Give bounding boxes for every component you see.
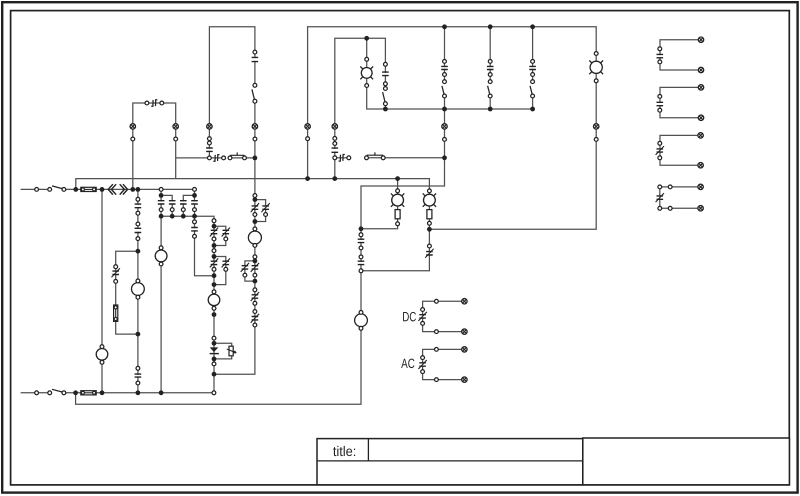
junction xyxy=(73,187,78,192)
junction xyxy=(253,197,258,202)
wire xyxy=(660,135,701,165)
connector pin xyxy=(428,221,432,225)
connector pin xyxy=(114,265,118,269)
connector pin xyxy=(136,279,140,283)
junction xyxy=(212,357,217,362)
contact K23 xyxy=(425,249,433,258)
contact K15a xyxy=(251,263,259,272)
wire xyxy=(361,179,398,229)
motor M2 xyxy=(355,314,368,327)
connector pin xyxy=(384,62,388,66)
terminal xyxy=(332,124,337,129)
wire xyxy=(255,200,266,222)
wire xyxy=(183,195,194,216)
junction xyxy=(192,193,197,198)
contact K4 xyxy=(382,72,389,76)
connector pin xyxy=(253,323,257,327)
terminal xyxy=(207,124,212,129)
junction xyxy=(332,176,337,181)
contact K28 xyxy=(418,312,426,321)
junction xyxy=(253,259,258,264)
terminal xyxy=(698,115,703,120)
contact K10 xyxy=(134,204,141,208)
connector pin xyxy=(594,52,598,56)
terminal xyxy=(462,347,467,352)
connector pin xyxy=(253,301,257,305)
junction xyxy=(136,187,141,192)
junction xyxy=(253,219,258,224)
connector pin xyxy=(359,255,363,259)
terminal xyxy=(173,124,178,129)
junction xyxy=(181,214,186,219)
switch blade S3 xyxy=(252,89,255,100)
contact K8a xyxy=(157,201,164,204)
junction xyxy=(305,176,310,181)
terminal xyxy=(130,124,135,129)
connector pin xyxy=(658,95,662,99)
wire xyxy=(367,157,445,159)
wire xyxy=(133,103,176,189)
wire xyxy=(214,226,226,245)
connector pin xyxy=(131,137,135,141)
junction xyxy=(159,390,164,395)
junction xyxy=(212,282,217,287)
connector pin xyxy=(212,362,216,366)
connector pin xyxy=(253,99,257,103)
connector pin xyxy=(170,208,174,212)
junction xyxy=(530,107,535,112)
junction xyxy=(442,155,447,160)
contact K18b xyxy=(222,228,230,237)
wire xyxy=(660,40,701,70)
wire xyxy=(214,101,255,374)
connector pin xyxy=(428,244,432,248)
connector pin xyxy=(181,208,185,212)
junction xyxy=(136,249,141,254)
connector pin xyxy=(193,220,197,224)
wire xyxy=(161,195,172,216)
contact K17 xyxy=(251,314,259,323)
wire xyxy=(335,38,386,178)
connector pin xyxy=(488,80,492,84)
connector pin xyxy=(253,194,257,198)
junction xyxy=(212,254,217,259)
connector pin xyxy=(359,233,363,237)
terminal xyxy=(462,299,467,304)
junction xyxy=(212,372,217,377)
wire xyxy=(444,27,446,82)
wire xyxy=(116,251,138,334)
terminal xyxy=(462,377,467,382)
wire xyxy=(21,188,50,190)
connector pin xyxy=(531,94,535,98)
junction xyxy=(100,390,105,395)
terminal xyxy=(252,124,257,129)
junction xyxy=(130,187,135,192)
title block right box xyxy=(583,438,790,485)
switch blade S6 xyxy=(488,86,490,95)
wire xyxy=(21,392,50,394)
lamp L5 xyxy=(208,294,220,306)
connector pin xyxy=(212,336,216,340)
junction xyxy=(212,273,217,278)
meter M1 xyxy=(248,231,261,244)
junction xyxy=(170,214,175,219)
connector pin xyxy=(531,73,535,77)
contact K16 xyxy=(251,292,259,301)
contact K26 xyxy=(656,146,664,155)
wire xyxy=(176,157,224,159)
contact K14b xyxy=(261,203,269,212)
connector pin xyxy=(488,94,492,98)
connector pin xyxy=(658,108,662,112)
contact K22 xyxy=(357,261,364,264)
wire xyxy=(214,343,232,359)
contact K14a xyxy=(251,203,259,212)
wire xyxy=(423,349,465,379)
connector pin xyxy=(253,137,257,141)
diode D1 xyxy=(210,347,219,353)
connector pin xyxy=(658,206,662,210)
connector pin xyxy=(359,246,363,250)
contact K19b xyxy=(222,258,230,267)
title block left box xyxy=(317,439,583,485)
connector pin xyxy=(658,156,662,160)
connector pin xyxy=(243,156,247,160)
junction xyxy=(253,156,258,161)
connector pin xyxy=(435,348,439,352)
switch blade S5 xyxy=(442,86,444,95)
terminal xyxy=(462,329,467,334)
junction xyxy=(100,187,105,192)
switch blade S2 xyxy=(52,389,64,392)
label DC xyxy=(403,312,409,321)
terminal xyxy=(442,124,447,129)
connector pin xyxy=(396,222,400,226)
lamp L1 xyxy=(391,193,404,206)
junction xyxy=(530,24,535,29)
wire xyxy=(308,27,597,230)
pushbutton PB1 xyxy=(230,153,245,156)
connector pin xyxy=(594,138,598,142)
connector pin xyxy=(658,60,662,64)
junction xyxy=(192,214,197,219)
connector chevron left xyxy=(108,184,116,194)
fuse F2 xyxy=(81,391,96,395)
junction xyxy=(212,224,217,229)
contact K27 xyxy=(656,193,664,202)
connector pin xyxy=(365,84,369,88)
junction xyxy=(212,243,217,248)
connector pin xyxy=(306,137,310,141)
connector pin xyxy=(253,288,257,292)
terminal xyxy=(305,124,310,129)
lamp L3 xyxy=(360,67,373,80)
connector pin xyxy=(208,137,212,141)
connector pin xyxy=(212,249,216,253)
contact K29 xyxy=(418,360,426,369)
resistor R1 xyxy=(395,210,400,219)
terminal xyxy=(698,37,703,42)
connector pin xyxy=(443,60,447,64)
wire xyxy=(76,179,430,271)
connector pin xyxy=(443,73,447,77)
connector pin xyxy=(136,211,140,215)
connector pin xyxy=(359,326,363,330)
junction xyxy=(212,312,217,317)
title block cell divider xyxy=(367,439,369,461)
junction xyxy=(383,107,388,112)
connector pin xyxy=(212,219,216,223)
connector pin xyxy=(253,227,257,231)
wire xyxy=(161,216,214,393)
connector pin xyxy=(174,137,178,141)
inline connector J1 xyxy=(151,100,157,107)
connector pin xyxy=(365,57,369,61)
connector pin xyxy=(159,262,163,266)
wire xyxy=(660,87,701,117)
contact K18a xyxy=(210,228,218,237)
connector pin xyxy=(421,308,425,312)
connector pin xyxy=(668,185,672,189)
connector pin xyxy=(443,138,447,142)
connector pin xyxy=(428,189,432,193)
wire xyxy=(214,257,226,285)
wire xyxy=(532,27,534,82)
connector pin xyxy=(136,295,140,299)
junction xyxy=(159,193,164,198)
connector pin xyxy=(208,141,212,145)
contact K3 xyxy=(331,148,338,152)
wire xyxy=(76,96,445,404)
wire xyxy=(489,96,491,109)
connector pin xyxy=(443,80,447,84)
connector pin xyxy=(253,83,257,87)
fuse F3 xyxy=(114,305,118,321)
varistor RV1 xyxy=(227,346,236,356)
connector pin xyxy=(333,137,337,141)
connector pin xyxy=(35,188,39,192)
contact K20 xyxy=(112,268,120,277)
connector pin xyxy=(421,370,425,374)
connector pin xyxy=(333,142,337,146)
connector pin xyxy=(359,269,363,273)
connector pin xyxy=(253,213,257,217)
fuse F1 xyxy=(81,187,96,191)
connector pin xyxy=(212,290,216,294)
connector pin xyxy=(384,102,388,106)
junction xyxy=(427,227,432,232)
connector pin xyxy=(193,188,197,192)
wire xyxy=(101,189,103,392)
contact K12 xyxy=(134,374,141,377)
pushbutton PB2 xyxy=(367,152,384,155)
connector pin xyxy=(62,391,66,395)
connector pin xyxy=(48,391,52,395)
contact K24 xyxy=(656,54,663,57)
connector pin xyxy=(35,391,39,395)
wire xyxy=(230,157,255,159)
connector pin xyxy=(159,246,163,250)
connector pin xyxy=(228,156,232,160)
connector pin xyxy=(594,79,598,83)
connector pin xyxy=(435,378,439,382)
wire xyxy=(64,392,214,394)
switch blade S1 xyxy=(52,186,64,189)
connector pin xyxy=(253,273,257,277)
contact K21 xyxy=(357,239,364,242)
contact K8b xyxy=(169,201,176,204)
terminal xyxy=(698,163,703,168)
connector pin xyxy=(222,156,226,160)
connector pin xyxy=(443,94,447,98)
wire xyxy=(64,188,195,190)
connector pin xyxy=(100,360,104,364)
motor M3 xyxy=(155,250,167,262)
junction xyxy=(488,107,493,112)
connector pin xyxy=(658,141,662,145)
connector pin xyxy=(160,101,164,105)
connector pin xyxy=(193,234,197,238)
connector pin xyxy=(208,156,212,160)
connector pin xyxy=(384,87,388,91)
junction xyxy=(212,341,217,346)
contact K5 xyxy=(441,66,448,69)
wire xyxy=(489,27,491,82)
connector pin xyxy=(381,156,385,160)
title label xyxy=(333,447,336,456)
connector pin xyxy=(243,273,247,277)
terminal xyxy=(698,206,703,211)
switch blade S7 xyxy=(530,86,532,95)
contact K15b xyxy=(241,263,249,272)
wire xyxy=(384,104,386,109)
terminal xyxy=(698,85,703,90)
connector pin xyxy=(253,50,257,54)
connector pin xyxy=(488,73,492,77)
wire xyxy=(660,187,701,208)
junction xyxy=(136,390,141,395)
connector pin xyxy=(48,188,52,192)
junction xyxy=(488,24,493,29)
connector pin xyxy=(488,60,492,64)
connector pin xyxy=(253,310,257,314)
inline connector J2 xyxy=(213,155,219,162)
connector pin xyxy=(435,299,439,303)
connector pin xyxy=(531,60,535,64)
junction xyxy=(364,36,369,41)
connector pin xyxy=(193,208,197,212)
connector pin xyxy=(159,188,163,192)
wire xyxy=(245,261,255,281)
junction xyxy=(442,24,447,29)
connector pin xyxy=(114,280,118,284)
contact K2 xyxy=(206,148,213,151)
lamp L4 xyxy=(589,60,603,74)
junction xyxy=(395,176,400,181)
switch blade S4 xyxy=(383,92,386,103)
connector chevron right xyxy=(120,184,128,194)
connector pin xyxy=(136,366,140,370)
connector pin xyxy=(658,185,662,189)
connector pin xyxy=(668,206,672,210)
connector pin xyxy=(136,222,140,226)
junction xyxy=(159,214,164,219)
connector pin xyxy=(347,156,351,160)
connector pin xyxy=(136,197,140,201)
wire xyxy=(209,27,255,158)
terminal xyxy=(594,124,599,129)
connector pin xyxy=(224,267,228,271)
connector pin xyxy=(159,208,163,212)
contact K6 xyxy=(487,66,494,69)
wire xyxy=(137,189,139,392)
connector pin xyxy=(212,267,216,271)
resistor R2 xyxy=(427,210,432,219)
contact K13 xyxy=(191,228,198,231)
terminal xyxy=(698,67,703,72)
connector pin xyxy=(384,82,388,86)
contact K19a xyxy=(210,258,218,267)
title block row divider xyxy=(317,460,583,462)
connector pin xyxy=(212,391,216,395)
wire xyxy=(367,38,533,109)
wire xyxy=(423,301,465,331)
motor M4 xyxy=(132,283,145,296)
wire xyxy=(160,189,162,392)
connector pin xyxy=(100,345,104,349)
connector pin xyxy=(136,237,140,241)
contact K7 xyxy=(529,66,536,69)
connector pin xyxy=(253,255,257,259)
contact K11 xyxy=(134,228,141,232)
junction xyxy=(442,107,447,112)
connector pin xyxy=(62,188,66,192)
label AC xyxy=(401,359,407,368)
connector pin xyxy=(365,156,369,160)
terminal xyxy=(698,133,703,138)
wire xyxy=(195,189,215,275)
motor M5 xyxy=(96,349,108,361)
connector pin xyxy=(396,189,400,193)
connector pin xyxy=(531,80,535,84)
terminal xyxy=(698,184,703,189)
junction xyxy=(73,390,78,395)
connector pin xyxy=(224,237,228,241)
contact K9b xyxy=(191,201,198,204)
connector pin xyxy=(253,244,257,248)
connector pin xyxy=(421,322,425,326)
connector pin xyxy=(333,156,337,160)
wire xyxy=(335,157,349,159)
connector pin xyxy=(435,330,439,334)
wire xyxy=(532,96,534,109)
connector pin xyxy=(658,47,662,51)
connector pin xyxy=(212,306,216,310)
inline connector J3 xyxy=(339,155,345,162)
contact K9a xyxy=(180,201,187,204)
junction xyxy=(136,332,141,337)
lamp L2 xyxy=(423,193,436,206)
contact K25 xyxy=(656,102,663,105)
junction xyxy=(253,279,258,284)
connector pin xyxy=(264,213,268,217)
junction xyxy=(359,226,364,231)
connector pin xyxy=(136,381,140,385)
connector pin xyxy=(359,311,363,315)
contact K1 xyxy=(251,57,258,61)
connector pin xyxy=(421,356,425,360)
